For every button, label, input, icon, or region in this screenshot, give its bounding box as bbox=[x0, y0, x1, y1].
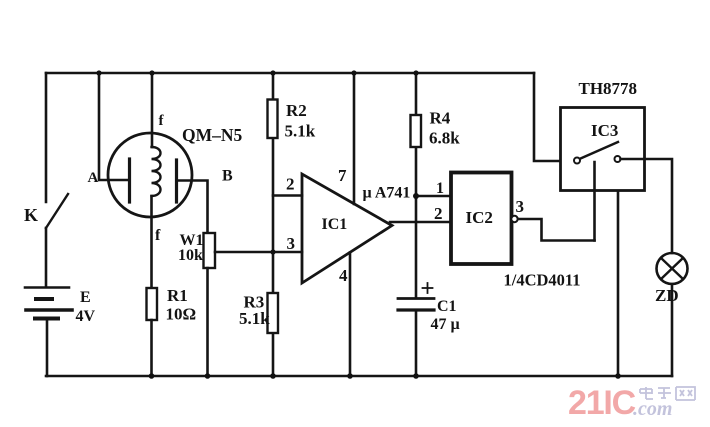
svg-text:R4: R4 bbox=[430, 109, 451, 128]
gate IC2 box bbox=[451, 173, 512, 265]
wire top rail bbox=[46, 72, 534, 75]
gas sensor QM-N5 envelope bbox=[108, 133, 192, 217]
wire rail to relay contact bbox=[534, 73, 577, 161]
wire IC2 pin3 to relay coil bbox=[518, 219, 595, 241]
svg-text:4: 4 bbox=[339, 266, 348, 285]
svg-text:2: 2 bbox=[286, 175, 295, 194]
svg-text:K: K bbox=[24, 205, 38, 225]
wire relay to bottom rail bbox=[617, 191, 620, 376]
svg-text:ZD: ZD bbox=[655, 286, 679, 305]
wire f top bbox=[151, 73, 154, 147]
switch K bbox=[46, 194, 68, 228]
potentiometer W1 body bbox=[204, 233, 216, 268]
svg-text:A: A bbox=[88, 170, 99, 186]
svg-text:R2: R2 bbox=[286, 101, 307, 120]
svg-text:1: 1 bbox=[436, 180, 444, 197]
resistor R1 body bbox=[147, 288, 158, 320]
wire relay coil lead bbox=[593, 162, 596, 241]
svg-text:QM–N5: QM–N5 bbox=[182, 125, 243, 145]
svg-text:3: 3 bbox=[287, 234, 296, 253]
wire R4 column bbox=[415, 73, 418, 298]
svg-text:µ A741: µ A741 bbox=[363, 185, 411, 202]
svg-text:IC3: IC3 bbox=[591, 121, 618, 140]
wire battery to bottom rail bbox=[46, 320, 49, 376]
svg-text:E: E bbox=[80, 289, 91, 306]
svg-text:3: 3 bbox=[516, 197, 525, 216]
relay switch arm bbox=[581, 142, 619, 159]
svg-text:IC1: IC1 bbox=[322, 216, 348, 233]
wire IC1 output to IC2 pin2 bbox=[390, 221, 451, 224]
pin3 bubble of IC2 bbox=[511, 216, 517, 222]
wire f bottom to R1 bbox=[150, 196, 153, 288]
relay IC3 box bbox=[561, 108, 645, 191]
wire lamp to rail bbox=[671, 284, 674, 376]
wire pin2 input bbox=[273, 194, 302, 197]
wire pin1 of IC2 bbox=[416, 195, 451, 198]
wire W1 bottom to rail bbox=[206, 268, 209, 376]
svg-text:C1: C1 bbox=[437, 298, 457, 315]
capacitor C1 bbox=[398, 283, 434, 310]
svg-text:.com: .com bbox=[633, 398, 672, 420]
svg-text:21IC: 21IC bbox=[568, 384, 636, 422]
lamp ZD bbox=[657, 253, 688, 284]
watermark CJK 电子网 bbox=[640, 387, 695, 400]
sensor left electrode bbox=[128, 159, 131, 202]
sensor heater coil bbox=[152, 147, 161, 196]
sensor right electrode bbox=[175, 160, 178, 202]
relay left contact bbox=[574, 158, 580, 164]
resistor R3 body bbox=[268, 293, 279, 333]
wire pin4 supply bbox=[349, 253, 352, 377]
svg-text:7: 7 bbox=[338, 166, 347, 185]
svg-text:47 µ: 47 µ bbox=[431, 316, 460, 333]
relay right contact bbox=[615, 156, 621, 162]
resistor R4 body bbox=[411, 115, 422, 147]
svg-text:10Ω: 10Ω bbox=[166, 305, 197, 324]
svg-text:10k: 10k bbox=[178, 247, 203, 264]
svg-text:4V: 4V bbox=[76, 308, 96, 325]
wire C1 to rail bbox=[415, 310, 418, 376]
wire R1 to rail bbox=[150, 320, 153, 376]
svg-text:IC2: IC2 bbox=[466, 208, 493, 227]
op-amp IC1 bbox=[302, 174, 392, 283]
svg-text:TH8778: TH8778 bbox=[579, 79, 638, 98]
resistor R2 body bbox=[268, 100, 278, 139]
svg-text:1/4CD4011: 1/4CD4011 bbox=[504, 271, 581, 290]
svg-text:5.1k: 5.1k bbox=[239, 309, 270, 328]
svg-text:6.8k: 6.8k bbox=[429, 129, 460, 148]
svg-text:R1: R1 bbox=[167, 286, 188, 305]
battery E 4V bbox=[25, 288, 72, 319]
svg-text:5.1k: 5.1k bbox=[285, 122, 316, 141]
wire pin7 supply bbox=[353, 73, 356, 204]
svg-text:f: f bbox=[155, 227, 161, 244]
wire left branch from rail to switch bbox=[45, 73, 48, 202]
wire relay contact to lamp bbox=[621, 159, 673, 253]
svg-text:B: B bbox=[222, 168, 233, 185]
wire switch to battery bbox=[45, 228, 48, 287]
wire W1 wiper to pin3 bbox=[215, 251, 302, 254]
watermark 21IC bbox=[568, 384, 695, 422]
wire R2 column bbox=[272, 73, 275, 376]
wire bottom rail bbox=[46, 375, 672, 378]
wire node A drop bbox=[99, 73, 130, 180]
svg-text:2: 2 bbox=[434, 204, 443, 223]
svg-text:f: f bbox=[159, 113, 165, 129]
wire node B to W1 bbox=[177, 181, 208, 234]
